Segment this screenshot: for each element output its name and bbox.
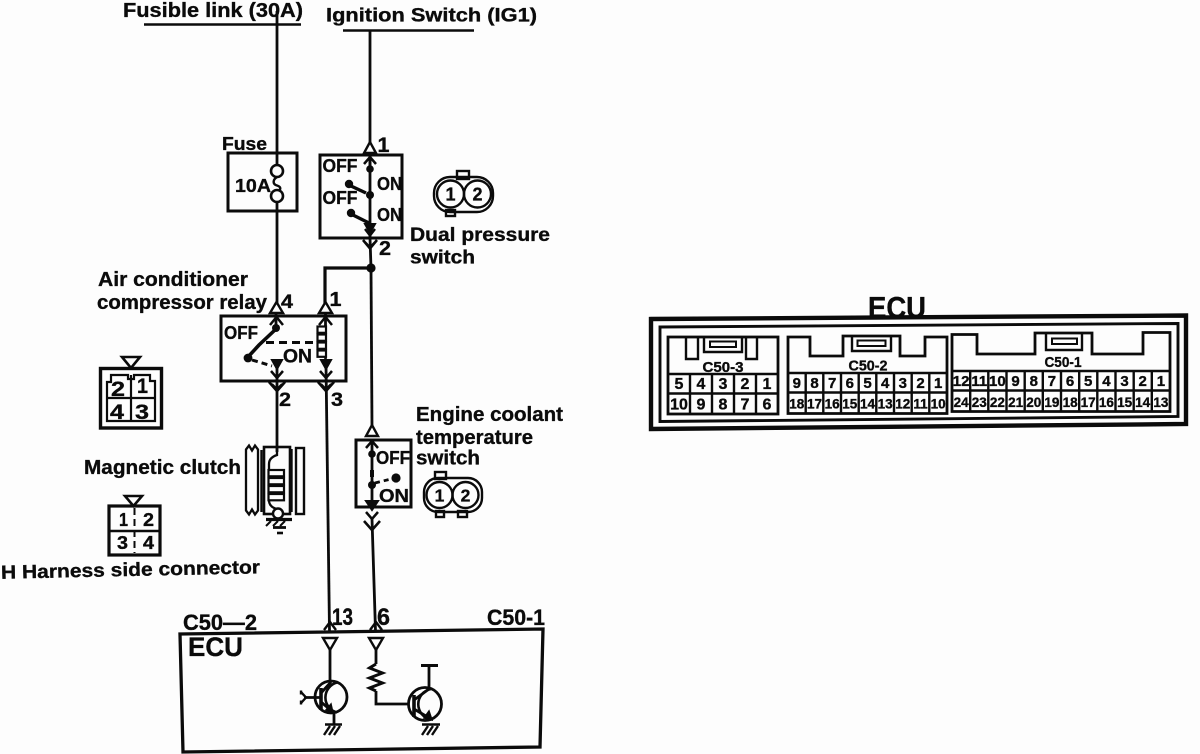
svg-text:21: 21 [1008,395,1024,410]
svg-text:OFF: OFF [376,447,410,468]
pin 13 label [332,604,353,631]
svg-text:4: 4 [281,292,293,313]
svg-text:ECU: ECU [868,290,926,325]
svg-text:6: 6 [763,397,772,414]
svg-text:17: 17 [807,397,822,412]
svg-text:7: 7 [1048,373,1056,390]
connector C50-1 body [952,333,1170,412]
node Engine coolant temperature switch label [416,404,563,470]
svg-text:3: 3 [899,375,907,392]
svg-text:6: 6 [846,375,854,392]
transistor Q1 [315,681,347,713]
connector CN2 (clutch 4-pin) body [109,506,160,555]
svg-text:OFF: OFF [323,155,358,176]
ground (transistor Q1) [325,723,342,726]
svg-text:13: 13 [1153,395,1169,410]
svg-text:2: 2 [279,390,291,411]
svg-text:compressor relay: compressor relay [97,292,268,314]
ECTS contacts [371,440,374,507]
svg-text:Engine coolant: Engine coolant [416,404,563,426]
svg-text:14: 14 [1135,395,1151,410]
wire resistor R1 to transistor Q2 base [376,691,408,704]
svg-text:3: 3 [135,401,149,424]
ECU connector outer frame [651,316,1186,430]
svg-text:12: 12 [953,373,970,390]
pin (ECTS top) [366,425,378,436]
svg-text:ECU: ECU [188,632,243,662]
svg-text:2: 2 [741,376,750,393]
svg-text:13: 13 [878,397,894,412]
svg-text:9: 9 [697,397,706,414]
magnetic clutch MC core bars [260,450,262,512]
connector C50-2 pin numbers [793,375,943,392]
svg-text:2: 2 [916,375,924,392]
fuse F1 label [222,133,267,154]
svg-text:2: 2 [1139,373,1147,390]
svg-text:4: 4 [110,401,124,424]
svg-text:3: 3 [117,533,128,553]
resistor R1 [370,664,383,691]
svg-text:4: 4 [881,375,890,392]
connector CN1 (relay 4-pin) body [101,369,162,429]
wire fuse to relay pin4 [276,202,279,303]
svg-text:Air conditioner: Air conditioner [98,269,248,291]
svg-text:20: 20 [1026,395,1041,410]
node ECU title (connector view) [868,290,926,325]
magnetic clutch MC coil [269,447,277,470]
svg-text:2: 2 [111,378,125,401]
fuse F1 box [228,153,297,211]
svg-text:3: 3 [719,376,728,393]
svg-text:5: 5 [675,376,684,393]
pin 1 (ignition switch) [378,134,390,157]
svg-text:12: 12 [895,397,910,412]
magnetic clutch MC pulley left [246,446,258,515]
ground (magnetic clutch) [266,518,292,521]
svg-text:10: 10 [931,397,946,412]
node Magnetic clutch label [84,457,241,479]
svg-text:5: 5 [1084,373,1092,390]
pin 2 (ignition switch) [365,224,375,233]
connector C50-1 pin grid [952,370,1170,372]
transistor Q2 [409,688,442,721]
svg-text:Fuse: Fuse [222,133,267,154]
svg-text:11: 11 [971,373,987,390]
ECTS connector pin numbers [435,486,471,506]
svg-text:10: 10 [989,373,1006,390]
svg-text:C50-1: C50-1 [1045,355,1082,371]
pin 6 label [377,604,390,631]
node C50-1 label (ECU box) [487,605,545,630]
svg-text:1: 1 [330,289,342,311]
relay K1 switch contact [224,322,258,343]
svg-text:3: 3 [331,390,343,411]
connector CN2 (clutch 4-pin) tab [125,496,142,506]
svg-text:24: 24 [954,395,970,410]
connector C50-1 pin numbers [953,373,1165,390]
svg-text:23: 23 [972,395,988,410]
svg-text:OFF: OFF [323,187,358,208]
svg-text:2: 2 [472,185,482,205]
svg-text:8: 8 [1030,373,1038,390]
connector C50-1 label [1045,355,1082,371]
svg-text:6: 6 [1066,373,1074,390]
svg-text:5: 5 [863,375,871,392]
svg-text:switch: switch [410,248,475,269]
connector C50-3 body [668,337,778,414]
svg-text:ON: ON [283,346,312,368]
pin 2 (relay) [272,360,282,369]
junction J1 [366,263,375,272]
svg-text:Dual pressure: Dual pressure [410,225,550,246]
svg-text:9: 9 [793,375,801,392]
node Ignition Switch (IG1) [326,6,537,27]
wire ignition pin2 to junction [370,238,371,268]
svg-text:Ignition Switch (IG1): Ignition Switch (IG1) [326,6,537,27]
svg-text:switch: switch [416,448,480,470]
svg-text:19: 19 [1044,395,1059,410]
svg-text:ON: ON [377,173,402,194]
pin 3 (relay) [321,360,331,369]
svg-text:2: 2 [379,238,391,260]
wire junction to relay pin1 [325,268,371,303]
svg-text:8: 8 [719,397,728,414]
wire relay pin3 to ECU pin13 [326,365,330,631]
node H Harness side connector label [1,557,261,583]
ECTS connector icon [424,472,482,517]
connector C50-3 pin numbers [670,376,771,414]
node Fusible link (30A) [123,0,303,22]
svg-text:15: 15 [1117,395,1133,410]
node Air conditioner compressor relay label [97,269,268,314]
wire pin13 to transistor Q1 [329,650,332,683]
node C50-2 label (ECU box) [183,610,257,635]
pin 6 entry marks [370,622,382,630]
svg-text:10A: 10A [235,175,271,196]
ignition switch S1 contacts [323,155,358,176]
svg-text:4: 4 [1102,373,1111,390]
magnetic clutch MC coil box [264,447,290,514]
node Dual pressure switch [410,225,550,269]
svg-text:temperature: temperature [416,427,533,449]
svg-text:16: 16 [1099,395,1115,410]
ignition switch S1 box [320,155,402,238]
ground (transistor Q2) [422,723,440,726]
connector CN1 (relay 4-pin) tab [122,357,140,368]
connector C50-2 label [849,359,888,375]
svg-text:1: 1 [119,510,128,530]
pin 1 (relay) [330,289,342,311]
engine coolant temperature switch box [356,440,411,507]
svg-text:7: 7 [828,375,836,392]
connector C50-2 pin grid [788,372,947,374]
svg-text:8: 8 [810,375,818,392]
svg-text:2: 2 [461,486,471,506]
wire junction to ECTS [371,268,372,426]
relay K1 coil [318,327,327,333]
svg-text:11: 11 [913,397,928,412]
connector CN1 pin numbers 2 1 4 3 [110,375,149,424]
svg-text:ON: ON [377,204,402,225]
svg-text:17: 17 [1081,395,1096,410]
svg-text:4: 4 [143,533,154,553]
svg-text:1: 1 [763,376,772,393]
svg-text:10: 10 [670,397,688,414]
dual pressure switch pin numbers [445,185,482,205]
fuse F1 value 10A [235,175,271,196]
svg-text:ON: ON [379,485,409,506]
connector C50-3 label [703,360,744,376]
svg-text:9: 9 [1011,373,1019,390]
svg-text:18: 18 [1063,395,1079,410]
svg-text:18: 18 [789,397,805,412]
svg-text:15: 15 [842,397,858,412]
wire fusible-link to fuse [276,11,279,165]
connector CN2 pin numbers 1 2 3 4 [117,510,154,553]
wire ECTS to ECU pin6 [372,519,376,631]
relay K1 box [221,316,346,381]
svg-text:OFF: OFF [224,322,258,343]
wire ignition-switch label to box [369,30,372,144]
svg-text:1: 1 [445,185,455,205]
svg-text:Magnetic clutch: Magnetic clutch [84,457,241,479]
svg-text:7: 7 [741,397,750,414]
svg-text:H Harness side connector: H Harness side connector [1,557,261,583]
svg-text:16: 16 [825,397,841,412]
svg-text:2: 2 [143,510,154,530]
svg-text:22: 22 [990,395,1005,410]
svg-text:1: 1 [1157,373,1165,390]
svg-text:14: 14 [860,397,876,412]
fuse F1 element [271,165,283,177]
pin 13 entry marks [324,622,336,630]
node ECU label [188,632,243,662]
svg-text:4: 4 [697,376,706,393]
connector C50-3 pin grid [668,373,778,375]
dual pressure switch connector icon [434,171,493,216]
ECU box (bottom) [180,629,543,752]
connector C50-2 body [788,336,947,414]
svg-text:3: 3 [1120,373,1128,390]
svg-text:1: 1 [137,375,148,398]
svg-text:1: 1 [435,486,445,506]
svg-text:1: 1 [934,375,942,392]
wire pin6 to resistor R1 [375,649,378,664]
magnetic clutch terminal [273,509,283,519]
pin 4 (relay) [281,292,293,313]
svg-text:C50-1: C50-1 [487,605,545,630]
wire relay pin2 to magnetic clutch [276,365,279,452]
pin (ECTS bottom) [366,501,378,510]
